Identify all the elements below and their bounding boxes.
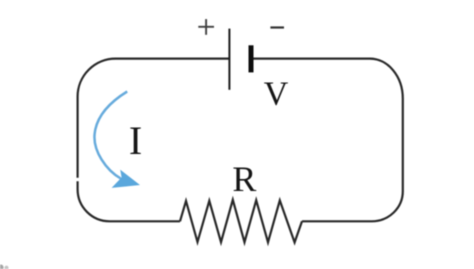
battery V: long thin plate (+)	[228, 29, 230, 90]
resistor R zigzag	[180, 200, 302, 243]
plus label	[198, 19, 214, 35]
battery V: short thick plate (-)	[249, 45, 254, 72]
svg-text:I: I	[129, 118, 142, 163]
wire: top-left segment, left side, with gap	[78, 59, 230, 178]
arrowhead	[112, 170, 140, 188]
wire: left lower + bottom-left corner to resistor	[78, 181, 180, 221]
svg-text:V: V	[264, 75, 289, 112]
current arrow I (blue curved arrow)	[94, 92, 127, 179]
minus label	[270, 26, 284, 28]
bottom-left corner smudge	[0, 265, 4, 269]
svg-text:R: R	[232, 159, 256, 199]
wire: bottom-right + right side + top-right corner to battery	[253, 59, 403, 222]
